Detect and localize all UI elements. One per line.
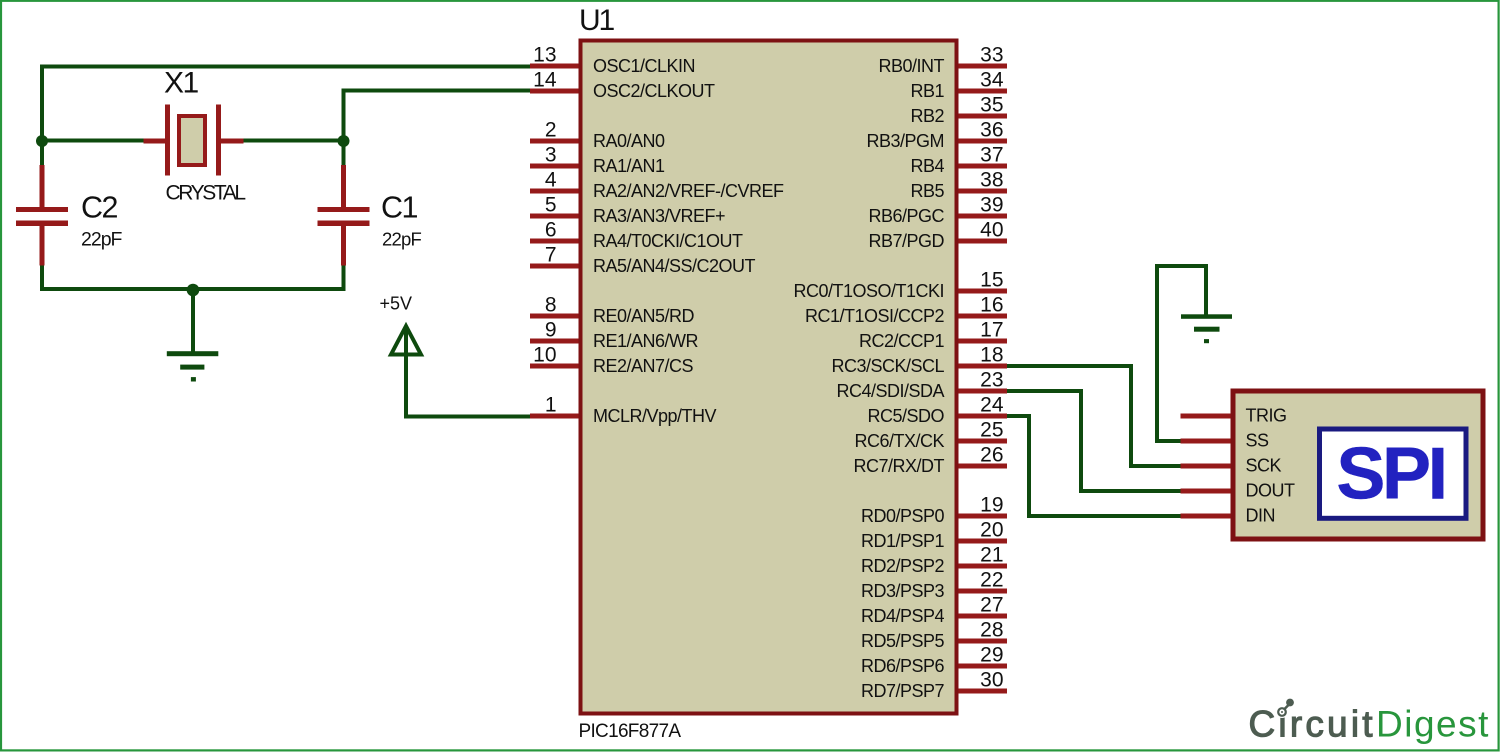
U1 pin 5 RA3/AN3/VREF+ xyxy=(530,194,725,226)
svg-text:SCK: SCK xyxy=(1246,456,1282,476)
svg-text:27: 27 xyxy=(980,594,1003,617)
svg-text:RD2/PSP2: RD2/PSP2 xyxy=(861,556,945,576)
power +5V xyxy=(380,294,422,419)
svg-text:33: 33 xyxy=(980,44,1003,67)
SPI pin DIN xyxy=(1181,506,1276,526)
svg-text:10: 10 xyxy=(533,344,556,367)
wire C2 bottom vertical xyxy=(40,266,44,292)
U1 pin 1 MCLR/Vpp/THV xyxy=(530,394,717,426)
svg-text:26: 26 xyxy=(980,444,1003,467)
svg-text:22: 22 xyxy=(980,569,1003,592)
svg-text:RB2: RB2 xyxy=(910,106,944,126)
U1 pin 24 RC5/SDO xyxy=(867,394,1007,426)
U1 pin 15 RC0/T1OSO/T1CKI xyxy=(793,269,1007,301)
SPI pin SS xyxy=(1181,431,1270,451)
svg-text:RD6/PSP6: RD6/PSP6 xyxy=(861,656,945,676)
svg-text:RA5/AN4/SS/C2OUT: RA5/AN4/SS/C2OUT xyxy=(593,256,756,276)
svg-text:13: 13 xyxy=(533,44,556,67)
U1 pin 17 RC2/CCP1 xyxy=(859,319,1007,351)
U1 pin 14 OSC2/CLKOUT xyxy=(530,69,715,101)
U1 pin 16 RC1/T1OSI/CCP2 xyxy=(805,294,1007,326)
svg-text:39: 39 xyxy=(980,194,1003,217)
U1 pin 40 RB7/PGD xyxy=(868,219,1007,251)
svg-text:18: 18 xyxy=(980,344,1003,367)
svg-text:RB6/PGC: RB6/PGC xyxy=(868,206,944,226)
ground (left) xyxy=(167,289,219,382)
svg-text:RB4: RB4 xyxy=(910,156,944,176)
U1 pin 36 RB3/PGM xyxy=(866,119,1007,151)
wire pin13 to top-left xyxy=(40,65,530,69)
capacitor C1 22pF xyxy=(318,165,422,266)
svg-text:RD3/PSP3: RD3/PSP3 xyxy=(861,581,945,601)
svg-text:17: 17 xyxy=(980,319,1003,342)
svg-text:36: 36 xyxy=(980,119,1003,142)
svg-text:7: 7 xyxy=(545,244,557,267)
svg-text:22pF: 22pF xyxy=(382,229,421,250)
svg-text:RB5: RB5 xyxy=(910,181,944,201)
svg-text:X1: X1 xyxy=(164,67,199,100)
svg-text:38: 38 xyxy=(980,169,1003,192)
wire MCLR to +5V xyxy=(404,415,530,419)
U1 pin 2 RA0/AN0 xyxy=(530,119,665,151)
U1 pin 35 RB2 xyxy=(910,94,1007,126)
wire pin14 horizontal xyxy=(342,89,531,93)
svg-text:PIC16F877A: PIC16F877A xyxy=(579,721,682,742)
svg-text:RB1: RB1 xyxy=(910,81,944,101)
wire crystal row right xyxy=(244,139,346,143)
svg-text:21: 21 xyxy=(980,544,1003,567)
U1 pin 7 RA5/AN4/SS/C2OUT xyxy=(530,244,756,276)
svg-text:20: 20 xyxy=(980,519,1003,542)
wire bottom row xyxy=(40,287,346,291)
SPI label box xyxy=(1320,429,1467,518)
svg-text:2: 2 xyxy=(545,119,557,142)
svg-text:RA1/AN1: RA1/AN1 xyxy=(593,156,665,176)
wire SS to ground xyxy=(1155,264,1208,443)
wire RC4/DOUT xyxy=(1007,389,1181,493)
svg-text:+5V: +5V xyxy=(380,294,413,314)
SPI pin TRIG xyxy=(1181,406,1287,426)
svg-text:RB0/INT: RB0/INT xyxy=(878,56,944,76)
U1 pin 33 RB0/INT xyxy=(878,44,1007,76)
svg-text:1: 1 xyxy=(545,394,557,417)
svg-text:U1: U1 xyxy=(579,4,614,37)
U1 pin 39 RB6/PGC xyxy=(868,194,1007,226)
crystal X1 xyxy=(144,67,246,205)
svg-text:RD1/PSP1: RD1/PSP1 xyxy=(861,531,945,551)
svg-text:RE2/AN7/CS: RE2/AN7/CS xyxy=(593,356,694,376)
svg-text:DOUT: DOUT xyxy=(1246,481,1295,501)
U1 pin 26 RC7/RX/DT xyxy=(853,444,1007,476)
svg-text:RD5/PSP5: RD5/PSP5 xyxy=(861,631,945,651)
svg-text:MCLR/Vpp/THV: MCLR/Vpp/THV xyxy=(593,406,717,426)
svg-text:35: 35 xyxy=(980,94,1003,117)
U1 pin 28 RD5/PSP5 xyxy=(861,619,1007,651)
svg-text:C2: C2 xyxy=(81,191,118,225)
IC U1 PIC16F877A body xyxy=(579,4,957,742)
svg-text:RE0/AN5/RD: RE0/AN5/RD xyxy=(593,306,695,326)
svg-text:RC0/T1OSO/T1CKI: RC0/T1OSO/T1CKI xyxy=(793,281,944,301)
svg-text:25: 25 xyxy=(980,419,1003,442)
svg-text:SPI: SPI xyxy=(1336,432,1444,515)
svg-text:6: 6 xyxy=(545,219,557,242)
svg-text:RC2/CCP1: RC2/CCP1 xyxy=(859,331,945,351)
U1 pin 34 RB1 xyxy=(910,69,1007,101)
SPI pin SCK xyxy=(1181,456,1282,476)
U1 pin 4 RA2/AN2/VREF-/CVREF xyxy=(530,169,784,201)
svg-text:RC6/TX/CK: RC6/TX/CK xyxy=(854,431,944,451)
wire left vertical xyxy=(40,65,44,166)
svg-text:RD7/PSP7: RD7/PSP7 xyxy=(861,681,945,701)
CircuitDigest logo xyxy=(1249,699,1490,745)
SPI pin DOUT xyxy=(1181,481,1295,501)
wire RC3/SCK xyxy=(1007,364,1181,468)
svg-text:TRIG: TRIG xyxy=(1246,406,1287,426)
svg-text:CRYSTAL: CRYSTAL xyxy=(166,182,246,205)
svg-text:40: 40 xyxy=(980,219,1003,242)
svg-text:4: 4 xyxy=(545,169,557,192)
U1 pin 3 RA1/AN1 xyxy=(530,144,665,176)
svg-text:23: 23 xyxy=(980,369,1003,392)
svg-text:8: 8 xyxy=(545,294,557,317)
svg-text:14: 14 xyxy=(533,69,557,92)
svg-text:5: 5 xyxy=(545,194,557,217)
svg-text:SS: SS xyxy=(1246,431,1270,451)
U1 pin 22 RD3/PSP3 xyxy=(861,569,1007,601)
junction node bottom xyxy=(187,284,200,297)
svg-text:34: 34 xyxy=(980,69,1004,92)
capacitor C2 22pF xyxy=(16,165,123,266)
U1 pin 8 RE0/AN5/RD xyxy=(530,294,695,326)
junction node left xyxy=(36,135,48,147)
ground (right) xyxy=(1181,314,1232,343)
svg-text:30: 30 xyxy=(980,669,1003,692)
svg-text:RA4/T0CKI/C1OUT: RA4/T0CKI/C1OUT xyxy=(593,231,743,251)
svg-text:24: 24 xyxy=(980,394,1004,417)
svg-text:15: 15 xyxy=(980,269,1003,292)
svg-text:Circuit: Circuit xyxy=(1249,704,1376,745)
svg-text:37: 37 xyxy=(980,144,1003,167)
svg-text:RB3/PGM: RB3/PGM xyxy=(866,131,944,151)
U1 pin 13 OSC1/CLKIN xyxy=(530,44,695,76)
svg-text:C1: C1 xyxy=(381,191,418,225)
U1 pin 19 RD0/PSP0 xyxy=(861,494,1007,526)
wire C1 vertical top xyxy=(342,89,346,166)
U1 pin 29 RD6/PSP6 xyxy=(861,644,1007,676)
svg-text:RD0/PSP0: RD0/PSP0 xyxy=(861,506,945,526)
svg-text:9: 9 xyxy=(545,319,557,342)
svg-text:RA3/AN3/VREF+: RA3/AN3/VREF+ xyxy=(593,206,725,226)
U1 pin 37 RB4 xyxy=(910,144,1007,176)
svg-text:RA2/AN2/VREF-/CVREF: RA2/AN2/VREF-/CVREF xyxy=(593,181,784,201)
U1 pin 21 RD2/PSP2 xyxy=(861,544,1007,576)
svg-text:RE1/AN6/WR: RE1/AN6/WR xyxy=(593,331,699,351)
U1 pin 30 RD7/PSP7 xyxy=(861,669,1007,701)
svg-text:29: 29 xyxy=(980,644,1003,667)
svg-text:19: 19 xyxy=(980,494,1003,517)
svg-text:RC7/RX/DT: RC7/RX/DT xyxy=(853,456,944,476)
svg-text:Digest: Digest xyxy=(1376,704,1490,745)
svg-text:RC5/SDO: RC5/SDO xyxy=(867,406,944,426)
svg-text:RC1/T1OSI/CCP2: RC1/T1OSI/CCP2 xyxy=(805,306,945,326)
svg-text:22pF: 22pF xyxy=(81,229,123,251)
U1 pin 27 RD4/PSP4 xyxy=(861,594,1007,626)
svg-text:16: 16 xyxy=(980,294,1003,317)
junction node right xyxy=(338,135,350,147)
wire crystal row left xyxy=(42,139,144,143)
svg-text:RC4/SDI/SDA: RC4/SDI/SDA xyxy=(836,381,944,401)
svg-text:OSC1/CLKIN: OSC1/CLKIN xyxy=(593,56,695,76)
svg-text:3: 3 xyxy=(545,144,557,167)
svg-text:RA0/AN0: RA0/AN0 xyxy=(593,131,665,151)
U1 pin 6 RA4/T0CKI/C1OUT xyxy=(530,219,743,251)
module SPI body xyxy=(1233,391,1483,539)
svg-text:RC3/SCK/SCL: RC3/SCK/SCL xyxy=(831,356,944,376)
U1 pin 25 RC6/TX/CK xyxy=(854,419,1007,451)
wire RC5/DIN xyxy=(1007,414,1181,518)
U1 pin 20 RD1/PSP1 xyxy=(861,519,1007,551)
svg-text:RD4/PSP4: RD4/PSP4 xyxy=(861,606,945,626)
svg-text:28: 28 xyxy=(980,619,1003,642)
U1 pin 10 RE2/AN7/CS xyxy=(530,344,694,376)
svg-text:RB7/PGD: RB7/PGD xyxy=(868,231,944,251)
svg-text:DIN: DIN xyxy=(1246,506,1276,526)
U1 pin 38 RB5 xyxy=(910,169,1007,201)
svg-text:OSC2/CLKOUT: OSC2/CLKOUT xyxy=(593,81,715,101)
U1 pin 23 RC4/SDI/SDA xyxy=(836,369,1007,401)
U1 pin 9 RE1/AN6/WR xyxy=(530,319,699,351)
U1 pin 18 RC3/SCK/SCL xyxy=(831,344,1007,376)
wire C1 bottom vertical xyxy=(342,266,346,292)
